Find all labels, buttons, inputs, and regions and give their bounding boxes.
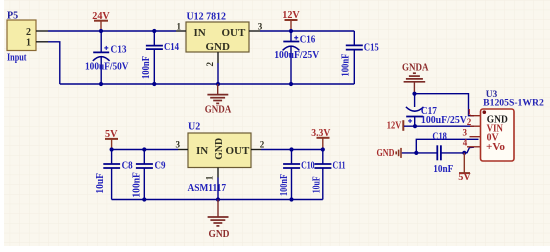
svg-text:100nF: 100nF <box>279 174 290 196</box>
svg-text:10nF: 10nF <box>433 164 453 175</box>
power port 12V <box>282 10 300 31</box>
power port 5V row2 <box>105 129 118 149</box>
capacitor C16 <box>274 31 320 84</box>
svg-text:U2: U2 <box>188 121 200 132</box>
wire U2.OUT to 3.3V <box>261 149 323 151</box>
junction GND rail/U12.2 <box>216 82 220 86</box>
svg-text:3: 3 <box>176 139 181 149</box>
svg-text:100nF: 100nF <box>141 56 152 79</box>
svg-text:GND: GND <box>377 148 395 159</box>
svg-text:2: 2 <box>467 117 472 127</box>
regulator U12 7812 <box>186 12 249 53</box>
junction 12V/C16 <box>289 29 293 33</box>
wire P5.1 to bottom rail <box>48 42 60 84</box>
svg-text:P5: P5 <box>7 11 18 22</box>
wire GNDA to U3.1 <box>415 94 475 116</box>
junction C10 top <box>289 147 293 151</box>
power port 3.3V <box>311 128 331 150</box>
svg-text:2: 2 <box>205 62 215 67</box>
ground GNDA row1 <box>205 84 232 116</box>
capacitor C14 <box>141 31 179 84</box>
pin stub U3.3 <box>470 136 481 138</box>
svg-text:+Vo: +Vo <box>486 142 505 153</box>
capacitor C13 <box>85 31 129 84</box>
svg-text:10uF: 10uF <box>312 176 323 193</box>
power port 5V right <box>458 153 471 183</box>
svg-text:GND: GND <box>206 41 231 53</box>
junction GND/0V <box>414 151 418 155</box>
svg-text:C14: C14 <box>164 42 179 53</box>
wire U12.3 to C15 <box>260 30 354 32</box>
wire U2.1 to bottom rail <box>217 178 219 200</box>
capacitor C10 <box>279 150 315 200</box>
wire junction up to 0V pin <box>416 139 478 153</box>
ground GND row2 <box>208 200 230 240</box>
pin stub U12.1 <box>176 30 186 32</box>
junction C9 bottom <box>142 197 146 201</box>
svg-text:10uF: 10uF <box>95 173 106 194</box>
svg-text:OUT: OUT <box>226 145 251 157</box>
svg-text:C8: C8 <box>122 161 133 172</box>
svg-text:C11: C11 <box>333 161 346 172</box>
junction C10 bottom <box>289 197 293 201</box>
capacitor C18 <box>432 131 464 175</box>
power port 12V left <box>387 120 404 131</box>
svg-text:1: 1 <box>26 37 31 48</box>
wire 12V to U3.2 <box>404 125 474 127</box>
svg-text:GND: GND <box>214 138 225 160</box>
svg-text:100uF/50V: 100uF/50V <box>85 62 129 73</box>
svg-text:3: 3 <box>463 127 468 137</box>
svg-text:1: 1 <box>467 107 471 116</box>
junction U2 gnd rail <box>216 197 220 201</box>
regulator U2 ASM1117 <box>188 121 252 194</box>
pin stub U3.1 <box>470 115 481 117</box>
svg-text:IN: IN <box>194 27 206 39</box>
junction C14 bottom <box>152 82 156 86</box>
junction C13/bottom rail <box>99 82 103 86</box>
wire junction to +Vo pin <box>464 147 474 153</box>
capacitor C11 <box>312 150 346 200</box>
junction C14 top <box>152 29 156 33</box>
svg-text:100uF/25V: 100uF/25V <box>274 50 320 61</box>
svg-text:B1205S-1WR2: B1205S-1WR2 <box>483 99 544 109</box>
wire 5V rail to U2.IN <box>112 149 178 151</box>
svg-text:1: 1 <box>177 22 182 32</box>
junction 5V/C8 <box>110 147 114 151</box>
svg-text:5V: 5V <box>458 172 471 183</box>
pin stub U2.1 <box>217 168 219 178</box>
junction C16 bottom <box>289 82 293 86</box>
svg-text:ASM1117: ASM1117 <box>188 183 227 194</box>
pin stub U2.3 <box>178 149 188 151</box>
power port GND right <box>377 148 402 159</box>
svg-text:U12 7812: U12 7812 <box>187 12 227 23</box>
svg-text:GNDA: GNDA <box>402 63 429 74</box>
svg-text:GNDA: GNDA <box>205 105 232 116</box>
pin stub P5.2 <box>36 30 48 32</box>
svg-text:C15: C15 <box>364 42 379 53</box>
power port 24V <box>92 11 110 31</box>
svg-text:3: 3 <box>258 21 263 31</box>
svg-text:C9: C9 <box>155 161 166 172</box>
capacitor C15 <box>340 31 379 84</box>
svg-text:OUT: OUT <box>222 27 247 39</box>
pin stub P5.1 <box>36 41 48 43</box>
svg-text:C13: C13 <box>111 44 127 55</box>
bottom rail row2 <box>112 199 323 201</box>
junction 24V/C13 <box>99 29 103 33</box>
connector P5 <box>7 11 36 64</box>
svg-text:4: 4 <box>463 138 468 148</box>
svg-text:GND: GND <box>209 229 230 240</box>
ground GNDA right <box>402 63 429 94</box>
svg-text:100nF: 100nF <box>131 172 142 198</box>
wire 24V rail P5.2 to U12.IN <box>48 30 176 32</box>
svg-text:C16: C16 <box>300 35 316 46</box>
capacitor C17 <box>406 94 468 127</box>
junction GNDA/C17 <box>412 92 416 96</box>
pin stub U3.2 <box>470 125 481 127</box>
svg-text:100nF: 100nF <box>340 54 351 77</box>
junction 5V/+Vo <box>462 151 466 155</box>
svg-text:12V: 12V <box>387 121 402 132</box>
wire U12.2 to bottom rail <box>217 63 219 84</box>
module U3 B1205S-1WR2 <box>481 90 545 161</box>
svg-text:2: 2 <box>260 140 265 150</box>
svg-text:Input: Input <box>7 53 27 64</box>
pin stub U2.2 <box>251 149 261 151</box>
junction C9 top <box>142 147 146 151</box>
wire GND to C18 <box>402 152 437 154</box>
svg-text:100uF/25V: 100uF/25V <box>421 115 468 126</box>
junction C17/12V <box>413 124 417 128</box>
pin stub U12.2 <box>217 52 219 63</box>
capacitor C8 <box>95 150 133 200</box>
bottom rail row1 <box>60 83 355 85</box>
capacitor C9 <box>131 150 165 200</box>
junction C11 top <box>321 147 325 151</box>
svg-text:C10: C10 <box>301 161 315 172</box>
pin stub U3.4 <box>467 146 481 148</box>
svg-text:C18: C18 <box>432 131 447 142</box>
svg-text:IN: IN <box>196 145 208 157</box>
svg-text:1: 1 <box>204 175 214 180</box>
pin stub U12.3 <box>249 30 260 32</box>
